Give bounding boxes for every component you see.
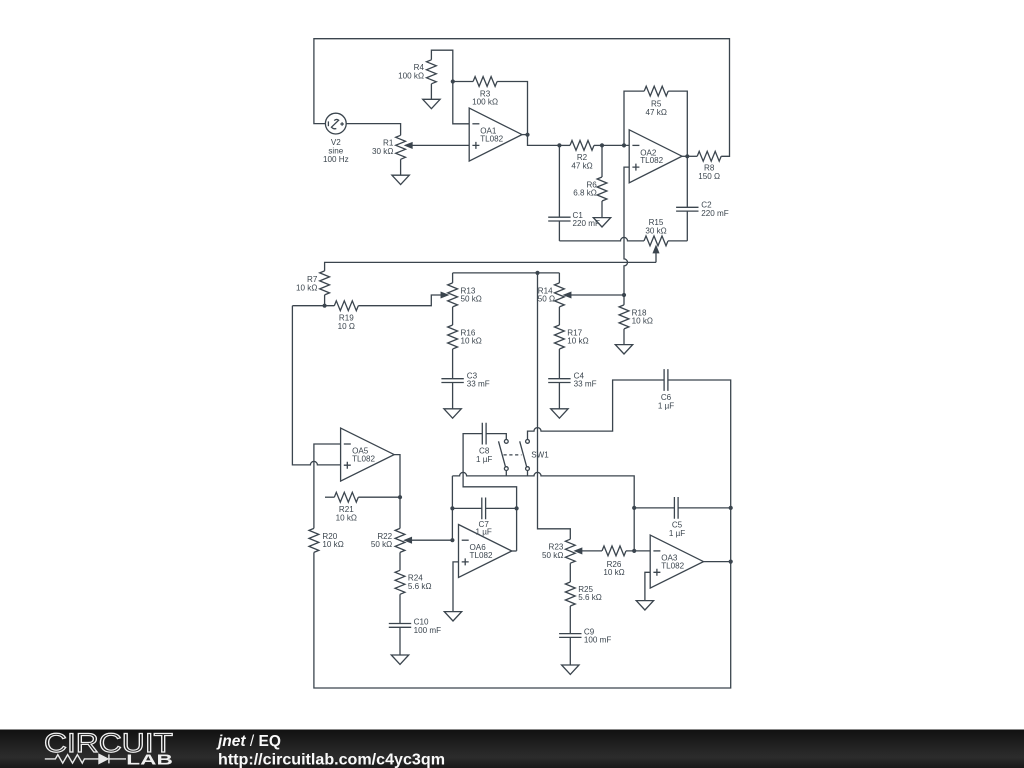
op-amp OA2 [629, 130, 682, 183]
label R18 [632, 308, 653, 325]
label R14 [538, 286, 555, 303]
svg-text:220 mF: 220 mF [701, 209, 728, 218]
capacitor C9 [559, 634, 581, 638]
wire junction down to OA1 - [453, 82, 469, 124]
wire R14 to R17 [558, 307, 560, 325]
op-amp OA3 [650, 535, 703, 588]
ground under C9 [562, 665, 579, 674]
resistor R26 [602, 546, 626, 556]
wire C6 left to switch (hop) [528, 380, 665, 439]
label R4 [398, 63, 424, 80]
svg-text:10 kΩ: 10 kΩ [632, 317, 653, 326]
ground under R4 [423, 99, 440, 108]
logo resistor-diode symbol [45, 754, 126, 763]
label R23 [542, 543, 564, 560]
CircuitLab footer bar [0, 730, 1024, 768]
wire R21 right [358, 496, 400, 498]
svg-text:6.8 kΩ: 6.8 kΩ [573, 189, 597, 198]
wire R5 right [668, 91, 687, 156]
wire C1-bottom to R15-left (hop) [559, 237, 644, 240]
resistor R7 [320, 271, 330, 295]
label R8 [698, 164, 720, 181]
svg-text:100 mF: 100 mF [584, 636, 611, 645]
node OA3 out on border [729, 560, 733, 564]
resistor R13 [448, 283, 458, 307]
label OA1 [480, 127, 503, 144]
wire R3 right down to OA1 out [497, 82, 527, 135]
wire R19 left [292, 305, 334, 307]
wire OA5 - to R20 [314, 444, 341, 528]
node OA6 - junction [450, 538, 454, 542]
wire R4 top [431, 50, 452, 81]
ground under C3 [444, 409, 461, 418]
wire C5 right [678, 507, 731, 509]
resistor R4 [427, 60, 437, 84]
resistor R8 [697, 151, 721, 161]
wire R3 left [453, 81, 473, 83]
svg-text:5.6 kΩ: 5.6 kΩ [408, 582, 432, 591]
svg-text:LAB: LAB [126, 753, 173, 768]
wire R2 right [594, 144, 602, 146]
node C7 right junction [515, 506, 519, 510]
svg-text:TL082: TL082 [480, 135, 503, 144]
wire OA5 out down [394, 455, 400, 529]
label OA6 [470, 543, 493, 560]
label R5 [646, 100, 667, 117]
node R3-left junction [451, 79, 455, 83]
svg-text:TL082: TL082 [640, 156, 663, 165]
label C5 [669, 521, 685, 538]
node C5 left junction [632, 506, 636, 510]
ground under C4 [551, 409, 568, 418]
capacitor C1 [548, 217, 570, 221]
svg-text:50 kΩ: 50 kΩ [542, 551, 563, 560]
svg-text:1 µF: 1 µF [476, 455, 492, 464]
label C2 [701, 201, 728, 218]
svg-text:TL082: TL082 [352, 454, 375, 463]
wire V2 to R1 [346, 124, 400, 136]
label R26 [603, 560, 624, 577]
svg-text:10 kΩ: 10 kΩ [322, 540, 343, 549]
wire C10 bottom [399, 627, 401, 655]
wire R23 to R25 [569, 563, 571, 582]
svg-text:33 mF: 33 mF [574, 380, 597, 389]
resistor R21 [334, 492, 358, 502]
label R22 [371, 532, 393, 549]
label R2 [571, 153, 592, 170]
label V2 [323, 138, 349, 164]
resistor R14 [555, 283, 565, 307]
svg-text:150 Ω: 150 Ω [698, 172, 720, 181]
svg-text:10 kΩ: 10 kΩ [603, 568, 624, 577]
op-amp OA6 [459, 525, 512, 578]
svg-text:jnet / EQ: jnet / EQ [216, 733, 281, 750]
capacitor C8 [482, 423, 486, 445]
wire switch bottom rail (hops) [452, 472, 634, 507]
svg-text:47 kΩ: 47 kΩ [646, 108, 667, 117]
svg-text:50 kΩ: 50 kΩ [461, 295, 482, 304]
wire R16 to C3 [452, 349, 454, 379]
wire R17 to C4 [558, 349, 560, 379]
ground under C10 [391, 655, 408, 664]
op-amp OA5 [341, 428, 395, 481]
wire R1 bottom [400, 159, 402, 175]
node R5 left junction [622, 143, 626, 147]
wire to OA2 - [602, 144, 629, 146]
resistor R1 [396, 135, 406, 159]
wire R2 left [559, 144, 570, 146]
node R14 wiper junction [622, 293, 626, 297]
label C1 [573, 211, 600, 228]
wire R23 wiper to R26 [582, 550, 602, 552]
label C7 [476, 520, 492, 537]
label R16 [461, 328, 482, 345]
wire R4 bottom [430, 84, 432, 100]
wire OA3 + to ground [645, 572, 650, 600]
resistor R3 [473, 77, 497, 87]
wire R15 wiper to R7 top [325, 262, 656, 271]
label R25 [578, 585, 602, 602]
capacitor C3 [441, 379, 463, 383]
node SW feed junction [535, 271, 539, 275]
label C10 [414, 618, 441, 635]
wire R14 top [558, 273, 560, 283]
wire C7 left [452, 507, 482, 509]
R13 wiper arrow [441, 292, 448, 297]
label C4 [574, 371, 597, 388]
svg-text:1 µF: 1 µF [476, 528, 492, 537]
capacitor C4 [548, 379, 570, 383]
wire OA3 out to border [704, 561, 731, 563]
ground under OA6 + [444, 612, 461, 621]
node C7 left junction [450, 506, 454, 510]
wire R1 wiper to OA1 + [412, 144, 469, 146]
capacitor C10 [389, 624, 411, 628]
svg-text:30 kΩ: 30 kΩ [645, 227, 666, 236]
op-amp OA1 [469, 108, 522, 161]
wire OA2 output [682, 155, 697, 157]
wire R26 to OA3 - [626, 550, 650, 552]
wire C2 bottom [686, 211, 688, 241]
wire C5 left plate [634, 507, 674, 509]
wire C8 right to switch [486, 434, 506, 440]
svg-text:10 Ω: 10 Ω [338, 322, 355, 331]
wire R19 right to R13 wiper [358, 295, 441, 306]
wire R7 bottom [324, 295, 326, 306]
label C9 [584, 627, 611, 644]
wire R24 to C10 [399, 594, 401, 623]
svg-text:TL082: TL082 [661, 562, 684, 571]
ground under R6 [593, 218, 610, 227]
capacitor C2 [676, 207, 698, 211]
wire OA1 output [522, 134, 528, 136]
wire R13 top to R14 top [453, 272, 560, 274]
label R17 [567, 328, 588, 345]
wire top border loop [314, 39, 730, 157]
svg-text:10 kΩ: 10 kΩ [296, 283, 317, 292]
svg-text:http://circuitlab.com/c4yc3qm: http://circuitlab.com/c4yc3qm [218, 751, 445, 768]
resistor R19 [334, 301, 358, 311]
label R19 [338, 314, 355, 331]
wire R6 top [601, 145, 603, 177]
resistor R23 [565, 539, 575, 563]
resistor R22 [395, 528, 405, 552]
label R6 [573, 180, 597, 197]
resistor R24 [395, 570, 405, 594]
wire C4 bottom [558, 383, 560, 409]
svg-text:100 kΩ: 100 kΩ [472, 98, 498, 107]
wire C7 right [486, 507, 517, 509]
ground under R18 [615, 345, 632, 354]
resistor R18 [619, 305, 629, 329]
wire OA2 + down to R18 (hop) [624, 167, 629, 305]
svg-text:50 Ω: 50 Ω [538, 295, 555, 304]
R15 wiper arrow [653, 246, 658, 253]
wire C1 bottom [558, 221, 560, 241]
wire R25 to C9 [569, 606, 571, 634]
capacitor C6 [664, 369, 668, 391]
svg-text:10 kΩ: 10 kΩ [461, 337, 482, 346]
wire C6 right to border [314, 380, 731, 688]
node C5 right on border [729, 506, 733, 510]
svg-text:30 kΩ: 30 kΩ [372, 147, 393, 156]
label OA2 [640, 148, 663, 165]
resistor R5 [644, 86, 668, 96]
wire R22 wiper to OA6 - [411, 539, 452, 541]
svg-text:TL082: TL082 [470, 551, 493, 560]
R22 wiper arrow [405, 538, 412, 543]
svg-text:10 kΩ: 10 kΩ [567, 337, 588, 346]
wire OA6 out [512, 550, 517, 552]
wire R21 left stub [325, 496, 334, 498]
R1 wiper arrow [406, 143, 413, 148]
node R21 right junction [398, 495, 402, 499]
svg-text:100 mF: 100 mF [414, 626, 441, 635]
wire C9 bottom [569, 637, 571, 665]
wire R14 wiper to junction [571, 294, 624, 296]
node R6 top junction [600, 143, 604, 147]
capacitor C7 [482, 498, 486, 520]
svg-text:47 kΩ: 47 kΩ [571, 162, 592, 171]
ground under R1 [392, 175, 409, 184]
label OA5 [352, 447, 375, 464]
wire R13 top [452, 273, 454, 283]
wire R15 right [668, 240, 687, 242]
node OA1 output [525, 133, 529, 137]
label R24 [408, 574, 432, 591]
ground under OA3 + [636, 601, 653, 610]
resistor R25 [565, 582, 575, 606]
wire rail corner down to OA6 - [451, 476, 453, 540]
wire R5 left [624, 91, 644, 145]
wire SW-feed down to R23 [538, 273, 571, 539]
label C3 [467, 371, 490, 388]
label C8 [476, 446, 492, 463]
resistor R17 [555, 325, 565, 349]
node OA2 output [685, 154, 689, 158]
wire C1 top [558, 145, 560, 217]
node OA3 - junction [632, 549, 636, 553]
wire left drop to OA5 + (hop) [292, 306, 340, 465]
node C1 top junction [557, 143, 561, 147]
svg-text:1 µF: 1 µF [658, 401, 674, 410]
voltage source V2 [325, 113, 346, 134]
label R7 [296, 275, 318, 292]
label R3 [472, 89, 498, 106]
R14 wiper arrow [564, 292, 571, 297]
node R7 bottom junction [323, 304, 327, 308]
label R1 [372, 139, 394, 156]
resistor R20 [309, 528, 319, 552]
wire R22 to R24 [399, 552, 401, 570]
label OA3 [661, 554, 684, 571]
R23 wiper arrow [575, 548, 582, 553]
wire C5-left down to OA3 - [633, 508, 635, 551]
svg-text:50 kΩ: 50 kΩ [371, 540, 392, 549]
wire R13 to R16 [452, 307, 454, 325]
wire C2 top [686, 156, 688, 207]
svg-text:33 mF: 33 mF [467, 380, 490, 389]
label R21 [336, 505, 357, 522]
resistor R6 [597, 177, 607, 201]
svg-text:5.6 kΩ: 5.6 kΩ [578, 593, 602, 602]
capacitor C5 [674, 497, 678, 519]
label R15 [645, 218, 666, 235]
svg-text:SW1: SW1 [531, 450, 549, 459]
wire R6 bottom [601, 201, 603, 218]
wire R18 bottom [623, 329, 625, 345]
label C6 [658, 393, 674, 410]
wire C8 left to OA6 out [463, 434, 516, 551]
resistor R16 [448, 325, 458, 349]
wire C3 bottom [452, 383, 454, 409]
resistor R15 [644, 236, 668, 246]
svg-text:10 kΩ: 10 kΩ [336, 513, 357, 522]
label R13 [461, 286, 482, 303]
switch SW1 [499, 440, 530, 476]
resistor R2 [570, 141, 594, 151]
wire R15 wiper down [655, 253, 657, 263]
svg-text:1 µF: 1 µF [669, 529, 685, 538]
wire OA1 out down-right [528, 135, 560, 146]
wire OA6 + to ground [453, 562, 459, 612]
svg-text:100 Hz: 100 Hz [323, 155, 349, 164]
svg-text:100 kΩ: 100 kΩ [398, 72, 424, 81]
label R20 [322, 532, 343, 549]
